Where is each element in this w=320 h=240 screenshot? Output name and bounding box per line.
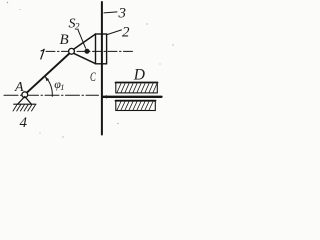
arrowhead of angle arc pointing at link 1	[45, 77, 49, 81]
wire: horizontal dash-dot center line through B	[46, 50, 133, 52]
link 2 triangle part from B to slider block	[73, 34, 96, 64]
ground line at A	[14, 103, 36, 105]
svg-text:C: C	[90, 69, 96, 84]
guide D upper block hatching	[117, 84, 157, 93]
svg-text:A: A	[14, 80, 24, 95]
revolute joint B (open circle)	[69, 48, 75, 54]
wire: horizontal dash-dot center line through A	[4, 94, 99, 96]
guide D lower block bold top edge	[116, 100, 156, 102]
leader line from S2 label to dot	[78, 30, 86, 48]
ground hatching at A	[13, 105, 36, 111]
leader line for label 2	[107, 30, 122, 35]
guide D upper block	[116, 83, 158, 93]
angle arc phi1	[46, 77, 53, 97]
guide D upper block bold top edge	[116, 82, 158, 84]
revolute joint A (open circle)	[22, 92, 28, 98]
svg-text:4: 4	[20, 115, 28, 131]
svg-text:2: 2	[75, 23, 80, 33]
output rod through guide D	[103, 96, 162, 98]
centre of mass S2 dot	[84, 49, 89, 54]
svg-text:1: 1	[60, 82, 64, 92]
svg-text:B: B	[60, 32, 69, 48]
paper specks (scan noise)	[7, 2, 174, 138]
label 1	[41, 49, 44, 59]
guide D lower block	[116, 101, 156, 111]
guide D lower block hatching	[117, 102, 153, 111]
rod 3 vertical guide bar	[101, 2, 103, 135]
link 2 slider block rectangle	[96, 34, 107, 64]
arrowhead at junction C (left end of output rod)	[103, 95, 107, 98]
svg-text:3: 3	[118, 6, 127, 22]
leader line for label 3	[104, 12, 117, 13]
svg-text:D: D	[133, 67, 145, 84]
svg-text:2: 2	[122, 25, 130, 41]
link 1 crank A-B	[25, 52, 72, 95]
fixed pivot support triangle at A	[18, 97, 32, 105]
